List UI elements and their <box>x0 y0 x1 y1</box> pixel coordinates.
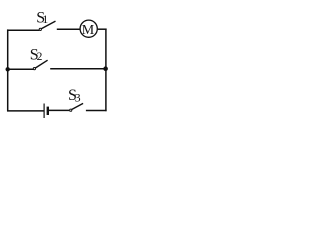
node left junction <box>6 67 10 71</box>
wire battery to S3 <box>49 109 69 111</box>
wire motor to right corner <box>98 28 107 30</box>
switch S2 <box>33 60 47 69</box>
svg-text:3: 3 <box>75 91 81 105</box>
label S1 <box>36 9 48 26</box>
wire middle right segment <box>50 68 106 70</box>
wire right vertical <box>105 29 107 112</box>
svg-text:M: M <box>82 23 95 38</box>
label S2 <box>30 46 43 63</box>
switch S1 <box>39 21 55 30</box>
svg-text:2: 2 <box>37 51 43 63</box>
wire top right segment <box>57 28 80 30</box>
label S3 <box>68 87 81 104</box>
battery BT1 <box>44 104 48 119</box>
wire bottom right segment <box>86 110 107 112</box>
wire left vertical <box>7 29 9 111</box>
wire middle left segment <box>8 68 34 70</box>
motor U1 <box>80 20 97 38</box>
svg-text:1: 1 <box>42 12 48 26</box>
wire bottom left segment <box>7 110 44 112</box>
switch S3 <box>70 103 84 111</box>
wire top left segment <box>7 29 39 31</box>
node right junction <box>103 66 108 71</box>
